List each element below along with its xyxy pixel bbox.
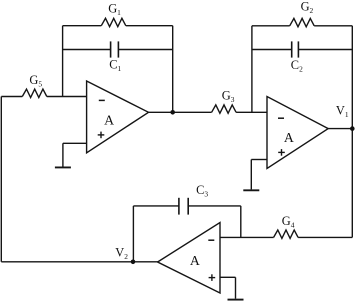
wire bottom to V2 and op-amp U3	[1, 261, 158, 263]
wire input left segment	[1, 96, 22, 98]
wire U2 output to node V1	[328, 128, 352, 130]
node U1 output junction	[170, 110, 175, 115]
capacitor C2	[252, 41, 352, 57]
op-amp U2 minus sign	[278, 117, 284, 119]
ground G under U1	[55, 143, 71, 167]
svg-text:C1: C1	[109, 58, 121, 74]
wire op-amp U2 plus input	[251, 159, 267, 161]
op-amp U3 plus sign	[209, 274, 216, 281]
op-amp U3 minus sign	[208, 239, 214, 241]
svg-text:V1: V1	[336, 104, 349, 120]
wire C3 right vertical	[240, 206, 242, 238]
node V2	[131, 260, 136, 265]
svg-text:A: A	[104, 112, 114, 127]
wire G3 to op-amp U2	[236, 111, 267, 113]
svg-text:A: A	[284, 130, 294, 145]
wire left vertical feedback	[0, 97, 2, 262]
capacitor C1	[63, 41, 173, 57]
op-amp U1	[87, 81, 149, 153]
ground G under U2	[243, 160, 259, 191]
op-amp U2	[267, 97, 328, 169]
op-amp U1 minus sign	[99, 99, 105, 101]
wire G4 to right vertical	[298, 236, 352, 238]
wire G2 left	[252, 25, 290, 27]
wire U1 output to G3	[149, 111, 212, 113]
wire U3 minus input to G4	[220, 236, 274, 238]
wire op-amp U1 plus input	[63, 142, 87, 144]
op-amp U1 plus sign	[98, 132, 105, 139]
svg-text:G3: G3	[222, 89, 235, 105]
wire G1 right	[126, 25, 173, 27]
svg-text:C3: C3	[196, 183, 208, 199]
svg-text:A: A	[190, 253, 200, 268]
svg-text:G5: G5	[29, 73, 42, 89]
resistor G4	[274, 230, 299, 238]
resistor G3	[212, 105, 237, 113]
wire C3 left vertical	[132, 206, 134, 262]
op-amp U2 plus sign	[278, 149, 285, 156]
svg-text:G4: G4	[282, 214, 295, 230]
op-amp U3	[158, 223, 220, 294]
resistor G2	[290, 18, 315, 26]
ground G under U3	[228, 277, 244, 299]
capacitor C3	[133, 198, 240, 215]
wire op-amp U3 plus input	[220, 276, 236, 278]
resistor G1	[101, 18, 125, 26]
resistor G5	[22, 89, 47, 97]
wire V1 vertical down to G4	[351, 129, 353, 238]
svg-text:V2: V2	[115, 246, 128, 262]
wire box1 right vertical	[172, 26, 174, 113]
wire G1 left	[63, 25, 102, 27]
svg-text:C2: C2	[291, 58, 303, 74]
wire G5 to op-amp U1	[47, 96, 87, 98]
wire box2 right vertical	[351, 26, 353, 129]
wire G2 right	[314, 25, 352, 27]
svg-text:G1: G1	[108, 2, 121, 18]
node V1	[350, 126, 355, 131]
wire box1 left vertical	[62, 26, 64, 97]
wire box2 left vertical	[251, 26, 253, 113]
svg-text:G2: G2	[301, 0, 314, 15]
